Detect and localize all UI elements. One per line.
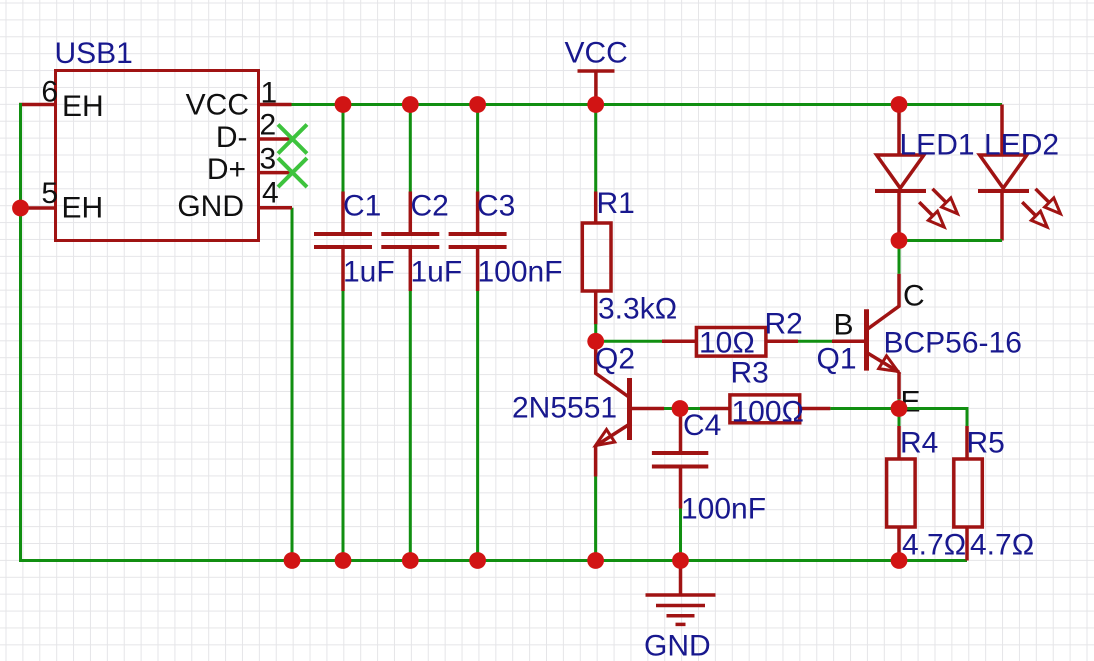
wire R4 bottom [898,553,901,561]
svg-text:LED1: LED1 [900,129,975,162]
svg-text:VCC: VCC [565,37,628,70]
resistor R2 [662,328,798,357]
wire C4 to bottom rail [679,509,682,561]
transistor Q1 [832,274,899,400]
junction LED1 cathode node [891,232,908,249]
svg-text:D+: D+ [207,153,246,186]
wire R1 to node [594,324,597,341]
svg-text:3: 3 [260,143,277,176]
svg-text:3.3kΩ: 3.3kΩ [598,293,677,326]
wire VCC to R1 [594,105,597,192]
svg-text:GND: GND [644,630,711,661]
power symbol VCC [578,71,615,99]
svg-text:4.7Ω: 4.7Ω [970,529,1034,562]
svg-text:1uF: 1uF [411,256,463,289]
junction R1 bottom node [587,333,604,350]
ground symbol GND [646,561,716,625]
wire C1 vertical [342,105,345,561]
svg-text:B: B [834,309,854,342]
svg-text:4.7Ω: 4.7Ω [902,529,966,562]
wire left rail + bottom rail [21,103,968,561]
no-connect X pin 2 [278,125,307,154]
svg-text:C1: C1 [343,190,381,223]
svg-text:2: 2 [260,109,277,142]
transistor Q2 [596,341,665,476]
LED LED2 [978,105,1061,241]
wire R2 to Q1 base [798,340,832,343]
junction R4 bottom [891,552,908,569]
wire Q2 emitter down [594,477,597,561]
svg-text:C2: C2 [411,190,449,223]
resistor R3 [700,395,830,423]
junction C3 top [469,96,486,113]
junction C1 bottom [335,552,352,569]
svg-text:USB1: USB1 [55,37,133,70]
wire node to R3 [680,407,700,410]
svg-text:10Ω: 10Ω [699,327,755,360]
capacitor C2 [381,192,439,292]
svg-text:EH: EH [62,192,104,225]
svg-text:R5: R5 [967,427,1005,460]
wire Q1 collector up [898,241,901,274]
junction Q2 base node [672,400,689,417]
wire R3 to E node [830,407,899,410]
svg-text:R1: R1 [597,187,635,220]
capacitor C3 [449,192,507,292]
svg-text:LED2: LED2 [984,129,1059,162]
svg-text:2N5551: 2N5551 [512,392,617,425]
svg-text:100Ω: 100Ω [732,396,804,429]
wire E node to R4/R5 [899,409,967,427]
svg-text:6: 6 [41,76,58,109]
wire C2 vertical [409,105,412,561]
svg-text:4: 4 [262,177,279,210]
svg-text:C: C [903,280,925,313]
junction pin4 bottom [284,552,301,569]
no-connect X pin 3 [278,158,307,187]
wire C3 vertical [476,105,479,561]
svg-text:Q1: Q1 [817,343,857,376]
resistor R1 [582,192,611,325]
junction E node [891,400,908,417]
svg-text:BCP56-16: BCP56-16 [884,327,1022,360]
junction Q2 emitter bottom [587,552,604,569]
svg-text:R3: R3 [731,357,769,390]
svg-text:R2: R2 [765,308,803,341]
resistor R4 [887,426,916,553]
svg-text:VCC: VCC [186,89,249,122]
svg-text:EH: EH [62,90,104,123]
svg-text:R4: R4 [900,427,938,460]
junction VCC [587,96,604,113]
capacitor C4 [652,409,708,509]
svg-text:C4: C4 [683,409,721,442]
svg-text:1uF: 1uF [343,256,395,289]
junction pin5 left rail [12,200,29,217]
junction GND bottom [672,552,689,569]
wire node to R2 [596,340,662,343]
capacitor C1 [314,192,372,292]
wire Q1 emitter down [898,399,901,408]
junction C2 bottom [402,552,419,569]
wire pin4 to bottom rail [291,208,294,561]
svg-text:GND: GND [177,190,244,223]
svg-text:100nF: 100nF [681,493,766,526]
component USB1 [19,71,293,241]
resistor R5 [954,426,983,561]
svg-text:1: 1 [261,77,278,110]
svg-text:C3: C3 [477,190,515,223]
junction LED1 top [891,96,908,113]
junction C1 top [335,96,352,113]
svg-text:D-: D- [216,121,248,154]
junction C3 bottom [469,552,486,569]
svg-text:5: 5 [41,177,58,210]
wire LED cathodes [899,239,1002,242]
wire top rail VCC bus [292,103,1003,106]
wire R4 top [898,409,901,427]
LED LED1 [875,105,958,241]
svg-text:100nF: 100nF [478,256,563,289]
wire Q2 base to node [664,407,680,410]
junction C2 top [402,96,419,113]
